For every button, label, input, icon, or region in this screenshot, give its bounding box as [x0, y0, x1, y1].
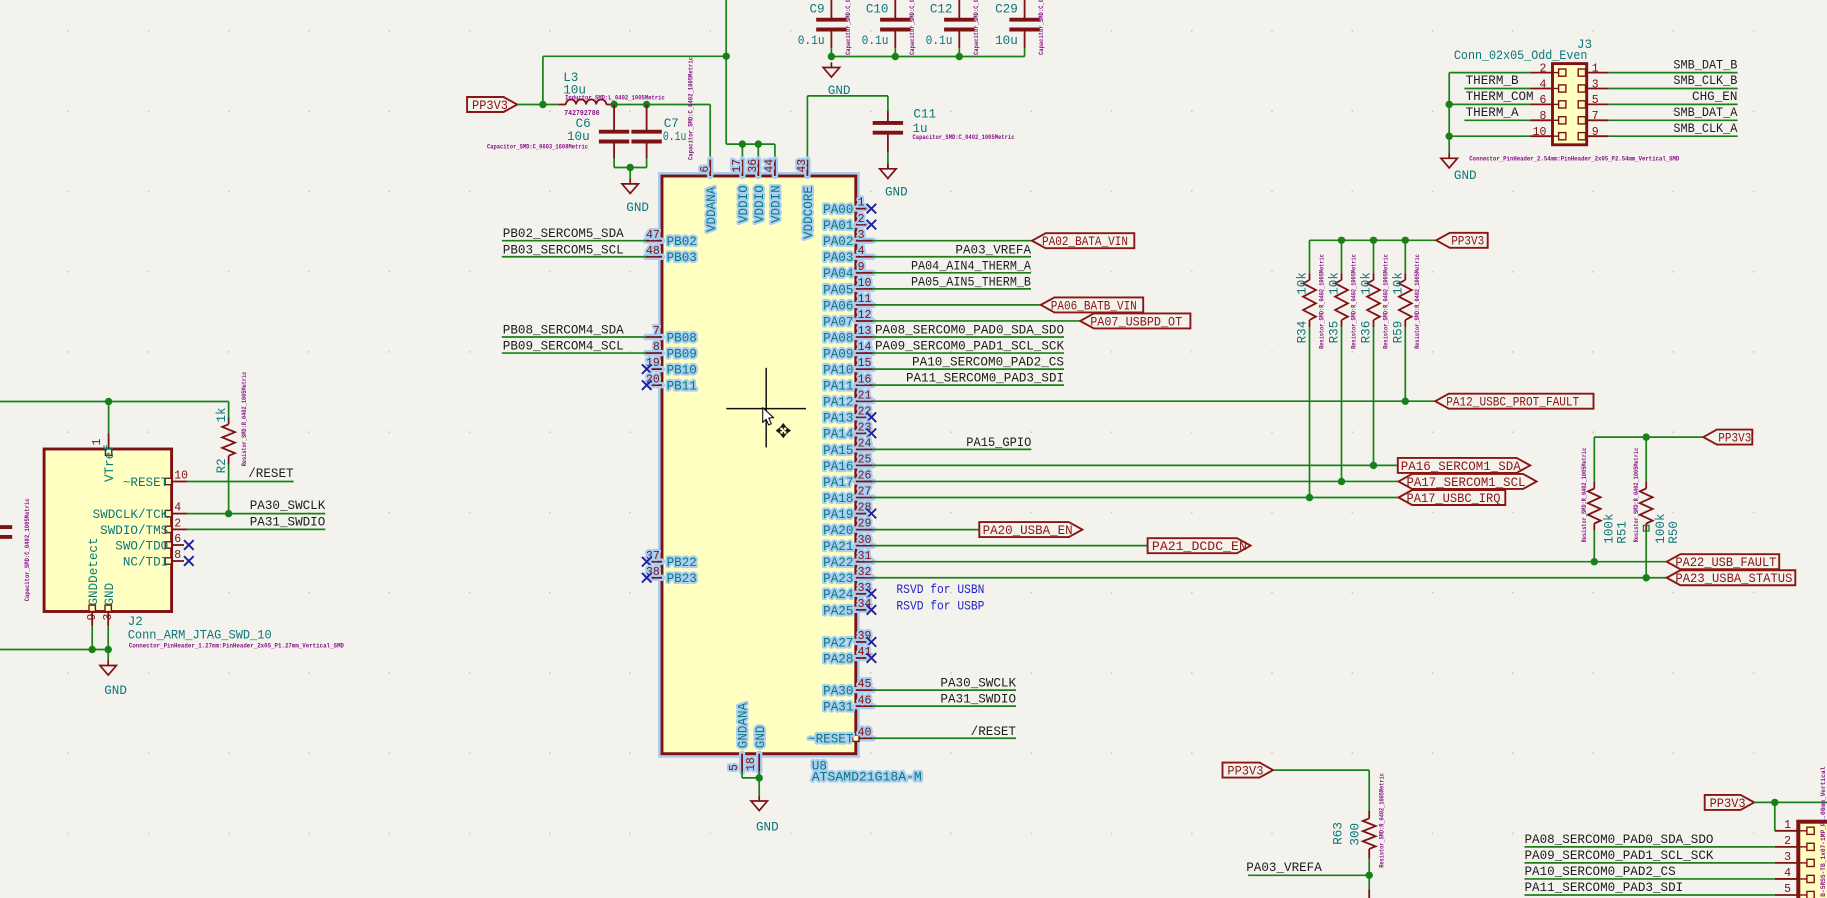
U8 pin 25 PA16: [823, 454, 873, 474]
wire PA07: [873, 320, 1080, 322]
wire to connector pin1: [1774, 802, 1776, 830]
microcontroller U8 ATSAMD21G18A-M body: [662, 176, 856, 754]
U8 pin 38 PB23: [646, 566, 697, 586]
J2 pin 10 ~RESET: [123, 470, 188, 490]
wire U8 gnd pins: [742, 772, 759, 797]
wire PA21: [873, 545, 1148, 547]
hierarchical label PA16_SERCOM1_SDA: [1398, 458, 1530, 474]
svg-text:5: 5: [1592, 94, 1599, 107]
wire PA08_SERCOM0_PAD0_SDA_SDO: [1525, 846, 1775, 848]
svg-text:PP3V3: PP3V3: [472, 99, 508, 113]
svg-text:Resistor_SMD:R_0402_1005Metric: Resistor_SMD:R_0402_1005Metric: [1581, 448, 1588, 543]
svg-text:C10: C10: [866, 2, 889, 16]
svg-text:Capacitor_SMD:C_0: Capacitor_SMD:C_0: [909, 0, 916, 55]
net label SMB_CLK_B: [1673, 74, 1737, 88]
J3 pin 2: [1531, 62, 1566, 76]
svg-text:48: 48: [646, 245, 660, 258]
junction J3 pin10: [1446, 133, 1453, 140]
svg-text:VDDIO: VDDIO: [753, 185, 767, 223]
svg-text:VDDIN: VDDIN: [770, 185, 784, 223]
hierarchical label PA22_USB_FAULT: [1667, 554, 1780, 570]
text RSVD for USBP: [896, 600, 984, 614]
J3 pin 6: [1531, 94, 1566, 108]
no-connect PB11: [642, 380, 652, 390]
svg-text:Conn_ARM_JTAG_SWD_10: Conn_ARM_JTAG_SWD_10: [128, 628, 272, 642]
wire PP3V3 R50R51 rail: [1594, 436, 1703, 438]
svg-text:SWO/TDO: SWO/TDO: [115, 539, 168, 553]
svg-text:36: 36: [747, 159, 760, 173]
U8 pin 4 PA03: [823, 245, 873, 265]
J2 pin 8 NC/TDI: [123, 549, 184, 569]
svg-text:PA06_BATB_VIN: PA06_BATB_VIN: [1051, 299, 1137, 313]
no-connect PA19: [867, 509, 877, 519]
no-connect PB10: [642, 364, 652, 374]
wire SMB_DAT_A: [1609, 119, 1738, 121]
svg-text:PA17_USBC_IRQ: PA17_USBC_IRQ: [1407, 492, 1501, 506]
svg-text:Resistor_SMD:R_0402_1005Metric: Resistor_SMD:R_0402_1005Metric: [1633, 448, 1640, 543]
svg-text:GND: GND: [103, 583, 117, 606]
svg-text:C11: C11: [913, 108, 936, 122]
wire PA10_SERCOM0_PAD2_CS: [1525, 878, 1775, 880]
U8 pin 37 PB22: [646, 550, 697, 570]
svg-text:PA30_SWCLK: PA30_SWCLK: [250, 499, 326, 513]
svg-text:VTref: VTref: [103, 444, 117, 482]
wire PA05: [873, 288, 1031, 290]
net label PA03_VREFA: [955, 243, 1031, 257]
svg-text:Resistor_SMD:R_0402_1005Metric: Resistor_SMD:R_0402_1005Metric: [1382, 254, 1389, 349]
junction J2 gnd 9: [89, 646, 96, 653]
svg-text:17: 17: [731, 159, 744, 173]
junction J2 gnd 3: [105, 646, 112, 653]
J2 pin 6 SWO/TDO: [115, 533, 184, 553]
svg-text:3: 3: [1784, 851, 1791, 864]
wire R36 top: [1373, 240, 1375, 273]
U8 pin 16 PA11: [823, 373, 873, 393]
J2 pin 2 SWDIO/TMS: [100, 517, 187, 537]
resistor R63 300: [1331, 773, 1385, 868]
svg-text:2: 2: [1539, 62, 1546, 75]
svg-text:PB09_SERCOM4_SCL: PB09_SERCOM4_SCL: [503, 340, 624, 354]
svg-text:21: 21: [858, 389, 872, 402]
capacitor at left edge: [0, 498, 31, 601]
svg-text:SMB_DAT_A: SMB_DAT_A: [1673, 106, 1737, 120]
svg-text:PA30: PA30: [823, 685, 853, 699]
U8 pin 45 PA30: [823, 678, 873, 698]
hierarchical label PP3V3 (R63): [1223, 763, 1274, 779]
no-connect PA13: [867, 412, 877, 422]
text RSVD for USBN: [896, 583, 984, 597]
U8 pin 2 PA01: [823, 213, 866, 233]
wire J3 pin10: [1449, 135, 1530, 137]
svg-text:PB03_SERCOM5_SCL: PB03_SERCOM5_SCL: [503, 243, 624, 257]
svg-text:3: 3: [1592, 78, 1599, 91]
net label PA05_AIN5_THERM_B: [911, 275, 1031, 289]
wire /RESET J2: [187, 481, 293, 483]
svg-text:PP3V3: PP3V3: [1227, 765, 1263, 779]
svg-text:PA04_AIN4_THERM_A: PA04_AIN4_THERM_A: [911, 259, 1031, 273]
svg-text:~RESET: ~RESET: [123, 476, 169, 490]
no-connect PB22: [642, 557, 652, 567]
wire PB08: [502, 336, 646, 338]
svg-text:10: 10: [1533, 126, 1547, 139]
wire SMB_CLK_A: [1609, 135, 1738, 137]
junction R63 PA03_VREFA: [1366, 872, 1373, 879]
svg-text:THERM_B: THERM_B: [1466, 74, 1519, 88]
connector pin 3 (bottom right): [1775, 851, 1814, 867]
svg-text:PA11_SERCOM0_PAD3_SDI: PA11_SERCOM0_PAD3_SDI: [1525, 881, 1684, 895]
wire PB02: [502, 240, 646, 242]
J2 pin 4 SWDCLK/TCK: [93, 502, 188, 522]
capacitor C12: [926, 0, 980, 55]
svg-text:15: 15: [858, 357, 872, 370]
svg-text:PA08_SERCOM0_PAD0_SDA_SDO: PA08_SERCOM0_PAD0_SDA_SDO: [1525, 833, 1714, 847]
svg-text:GNDANA: GNDANA: [737, 702, 751, 748]
J2 pin 9 GNDDetect: [86, 537, 101, 625]
svg-text:PA28: PA28: [823, 652, 853, 666]
svg-text:RSVD for USBP: RSVD for USBP: [896, 600, 984, 614]
svg-text:SWDCLK/TCK: SWDCLK/TCK: [93, 508, 169, 522]
junction U8 gnd: [756, 774, 763, 781]
hierarchical label PA02_BATA_VIN: [1032, 233, 1134, 249]
hierarchical label PP3V3 (R50 R51): [1703, 430, 1752, 446]
svg-text:R50: R50: [1667, 521, 1681, 544]
svg-text:Capacitor_SMD:C_0603_1608Metri: Capacitor_SMD:C_0603_1608Metric: [487, 143, 588, 150]
svg-text:/RESET: /RESET: [248, 467, 294, 481]
svg-text:PA30_SWCLK: PA30_SWCLK: [940, 677, 1016, 691]
wire R50 bottom: [1645, 530, 1647, 578]
svg-text:Inductor_SMD:L_0402_1005Metric: Inductor_SMD:L_0402_1005Metric: [565, 94, 665, 101]
svg-text:SWDIO/TMS: SWDIO/TMS: [100, 524, 168, 538]
hierarchical label PA07_USBPD_OT: [1080, 313, 1190, 329]
svg-text:SMB_DAT_B: SMB_DAT_B: [1673, 58, 1737, 72]
svg-text:CHG_EN: CHG_EN: [1692, 90, 1737, 104]
svg-text:Resistor_SMD:R_0402_1005Metric: Resistor_SMD:R_0402_1005Metric: [1414, 254, 1421, 349]
svg-text:PA18: PA18: [823, 492, 853, 506]
svg-text:PA08_SERCOM0_PAD0_SDA_SDO: PA08_SERCOM0_PAD0_SDA_SDO: [875, 324, 1064, 338]
svg-text:PA14: PA14: [823, 428, 853, 442]
svg-text:31: 31: [858, 550, 872, 563]
capacitor C6: [487, 105, 629, 159]
hierarchical label PA23_USBA_STATUS: [1667, 570, 1796, 586]
wire R35 top: [1341, 240, 1343, 273]
wire VDDIO feed: [726, 144, 775, 160]
svg-text:6: 6: [699, 166, 712, 173]
svg-text:8: 8: [653, 341, 660, 354]
svg-text:2: 2: [174, 517, 181, 530]
wire /RESET U8: [873, 737, 1016, 739]
junction PA12 R59: [1402, 398, 1409, 405]
svg-text:2: 2: [1784, 835, 1791, 848]
wire C11 to gnd: [887, 152, 889, 169]
svg-text:PA21: PA21: [823, 540, 853, 554]
svg-text:46: 46: [858, 694, 872, 707]
svg-text:10: 10: [858, 277, 872, 290]
svg-text:PA11: PA11: [823, 380, 853, 394]
svg-text:29: 29: [858, 518, 872, 531]
junction VDDIO pins: [739, 140, 762, 147]
junction at L3 input: [539, 101, 546, 108]
svg-text:0.1u: 0.1u: [663, 130, 687, 144]
U8 pin 6 VDDANA: [699, 160, 719, 232]
svg-text:Resistor_SMD:R_0402_1005Metric: Resistor_SMD:R_0402_1005Metric: [1318, 254, 1325, 349]
net label PA09_SERCOM0_PAD1_SCL_SCK: [875, 340, 1064, 354]
svg-text:PA06: PA06: [823, 299, 853, 313]
inductor L3: [558, 71, 665, 118]
ground J3: [1441, 153, 1477, 183]
U8 pin 19 PB10: [646, 357, 697, 377]
wire R2 top: [228, 402, 230, 418]
wire R2 bottom: [228, 465, 230, 514]
U8 pin 39 PA27: [823, 630, 871, 650]
svg-text:40: 40: [858, 726, 872, 739]
hierarchical label PP3V3 (top left): [467, 97, 517, 113]
U8 pin 36 VDDIO: [747, 159, 767, 223]
svg-text:PA07: PA07: [823, 315, 853, 329]
no-connect J2 pin 8: [184, 556, 194, 566]
U8 pin 10 PA05: [823, 277, 873, 297]
svg-text:Capacitor_SMD:C_0402_1005Metri: Capacitor_SMD:C_0402_1005Metric: [688, 57, 695, 160]
svg-text:PB11: PB11: [667, 380, 697, 394]
svg-text:R51: R51: [1615, 521, 1629, 544]
svg-text:16: 16: [858, 373, 872, 386]
wire SMB_DAT_B: [1609, 72, 1738, 74]
capacitor C29: [995, 0, 1045, 55]
svg-text:45: 45: [858, 678, 872, 691]
junction PA18 R34: [1306, 494, 1313, 501]
svg-text:13: 13: [858, 325, 872, 338]
svg-text:PA13: PA13: [823, 412, 853, 426]
wire PA08: [873, 336, 1064, 338]
J3 reference: [1577, 38, 1592, 52]
svg-text:PA15: PA15: [823, 444, 853, 458]
J3 pin 1: [1578, 62, 1609, 76]
wire PA02: [873, 240, 1032, 242]
svg-text:4: 4: [858, 245, 865, 258]
U8 pin 8 PB09: [646, 341, 697, 361]
wire PA11_SERCOM0_PAD3_SDI: [1525, 894, 1775, 896]
wire PA15: [873, 448, 1032, 450]
svg-text:C12: C12: [930, 2, 953, 16]
svg-text:Resistor_SMD:R_0402_1005Metric: Resistor_SMD:R_0402_1005Metric: [1378, 773, 1385, 868]
svg-text:SMB_CLK_A: SMB_CLK_A: [1673, 122, 1737, 136]
U8 pin 40 ~RESET: [808, 726, 873, 746]
svg-text:PA01: PA01: [823, 219, 853, 233]
svg-text:J2: J2: [128, 615, 143, 629]
J3 pin 4: [1531, 78, 1566, 92]
junction C7 top: [643, 101, 650, 108]
net label PA30_SWCLK (J2): [250, 499, 326, 513]
svg-text:GND: GND: [104, 684, 127, 698]
svg-text:PA03: PA03: [823, 251, 853, 265]
wire PA03: [873, 256, 1031, 258]
junction caps rail: [828, 53, 963, 60]
svg-text:PA27: PA27: [823, 636, 853, 650]
U8 pin 48 PB03: [646, 245, 697, 265]
crosshair cursor: [726, 368, 806, 448]
U8 pin 27 PA18: [823, 486, 873, 506]
wire R51 top: [1593, 437, 1595, 482]
svg-text:26: 26: [858, 470, 872, 483]
net label PA10_SERCOM0_PAD2_CS: [912, 356, 1064, 370]
svg-text:PA23_USBA_STATUS: PA23_USBA_STATUS: [1675, 572, 1792, 586]
resistor R2 1k: [215, 371, 248, 473]
svg-text:10u: 10u: [995, 34, 1018, 48]
svg-text:PA19: PA19: [823, 508, 853, 522]
svg-text:0.1u: 0.1u: [862, 34, 889, 48]
svg-text:RSVD for USBN: RSVD for USBN: [896, 583, 984, 597]
junction PA16 R36: [1370, 462, 1377, 469]
svg-text:PA09_SERCOM0_PAD1_SCL_SCK: PA09_SERCOM0_PAD1_SCL_SCK: [1525, 849, 1714, 863]
svg-text:Conn_02x05_Odd_Even: Conn_02x05_Odd_Even: [1454, 49, 1588, 63]
wire PA23: [873, 577, 1667, 579]
svg-text:B-5RSS-TB_1x07-1MP_P1.06mm_Ver: B-5RSS-TB_1x07-1MP_P1.06mm_Vertical: [1820, 767, 1827, 897]
svg-text:0.1u: 0.1u: [926, 34, 953, 48]
resistor R36 10k: [1360, 254, 1390, 349]
net label PB09_SERCOM4_SCL: [503, 340, 624, 354]
ground caps rail: [823, 62, 850, 98]
svg-text:PA09: PA09: [823, 347, 853, 361]
svg-text:300: 300: [1349, 823, 1363, 846]
no-connect PA25: [867, 605, 877, 615]
svg-text:43: 43: [796, 159, 809, 173]
svg-text:VDDIO: VDDIO: [737, 185, 751, 223]
svg-text:Connector_PinHeader_1.27mm:Pin: Connector_PinHeader_1.27mm:PinHeader_2x0…: [129, 642, 344, 649]
svg-text:9: 9: [86, 614, 99, 621]
svg-text:PA20_USBA_EN: PA20_USBA_EN: [983, 524, 1073, 538]
svg-text:PA09_SERCOM0_PAD1_SCL_SCK: PA09_SERCOM0_PAD1_SCL_SCK: [875, 340, 1064, 354]
resistor R59 10k: [1392, 254, 1422, 349]
net label PB08_SERCOM4_SDA: [503, 324, 624, 338]
svg-text:R2: R2: [215, 458, 229, 473]
hierarchical label PA17_SERCOM1_SCL: [1399, 474, 1537, 490]
J3 pin 3: [1578, 78, 1609, 92]
U8 pin 20 PB11: [646, 373, 697, 393]
net label PA11_SERCOM0_PAD3_SDI: [1525, 881, 1684, 895]
svg-text:R59: R59: [1392, 321, 1406, 344]
junction rail R36: [1370, 237, 1377, 244]
J3 pin 7: [1578, 110, 1609, 124]
svg-text:GND: GND: [1454, 169, 1477, 183]
connector pin 2 (bottom right): [1775, 835, 1814, 851]
svg-text:18: 18: [745, 757, 758, 771]
svg-text:PA11_SERCOM0_PAD3_SDI: PA11_SERCOM0_PAD3_SDI: [906, 372, 1064, 386]
wire PA11: [873, 384, 1064, 386]
net label THERM_COM: [1466, 90, 1534, 104]
wire THERM_A: [1464, 119, 1530, 121]
svg-text:PA12_USBC_PROT_FAULT: PA12_USBC_PROT_FAULT: [1446, 396, 1579, 410]
net label PA08_SERCOM0_PAD0_SDA_SDO: [1525, 833, 1714, 847]
svg-text:PB02_SERCOM5_SDA: PB02_SERCOM5_SDA: [503, 227, 624, 241]
svg-text:PA31_SWDIO: PA31_SWDIO: [250, 516, 326, 530]
wire PA03_VREFA bottom: [1248, 875, 1369, 889]
capacitor C7: [631, 57, 694, 160]
net label SMB_DAT_A: [1673, 106, 1737, 120]
connector J2 body: [44, 449, 172, 612]
net label CHG_EN: [1692, 90, 1737, 104]
wire gnd rail of caps: [831, 48, 1024, 56]
wire PA06: [873, 304, 1041, 306]
svg-text:PP3V3: PP3V3: [1710, 797, 1746, 811]
J2 pin 1 VTref: [91, 434, 117, 483]
svg-text:PA16_SERCOM1_SDA: PA16_SERCOM1_SDA: [1401, 460, 1521, 474]
hierarchical label PA21_DCDC_EN: [1148, 538, 1251, 554]
svg-text:PA31: PA31: [823, 701, 853, 715]
wire SMB_CLK_B: [1609, 88, 1738, 90]
U8 pin 26 PA17: [823, 470, 873, 490]
svg-text:7: 7: [1592, 110, 1599, 123]
svg-text:GND: GND: [756, 820, 779, 834]
wire PA16: [873, 464, 1398, 466]
net label PB03_SERCOM5_SCL: [503, 243, 624, 257]
svg-text:GNDDetect: GNDDetect: [87, 537, 101, 605]
wire PA17: [873, 480, 1399, 482]
junction rail R35: [1338, 237, 1345, 244]
svg-text:PA22_USB_FAULT: PA22_USB_FAULT: [1675, 556, 1776, 570]
svg-text:25: 25: [858, 454, 872, 467]
wire PA31: [873, 705, 1016, 707]
wire J2 gnd pins: [0, 626, 108, 661]
hierarchical label PA17_USBC_IRQ: [1399, 490, 1506, 506]
svg-text:PA21_DCDC_EN: PA21_DCDC_EN: [1152, 540, 1247, 554]
svg-text:PA10_SERCOM0_PAD2_CS: PA10_SERCOM0_PAD2_CS: [1525, 865, 1676, 879]
svg-text:100k: 100k: [1654, 513, 1668, 543]
svg-text:10u: 10u: [567, 130, 590, 144]
svg-text:PP3V3: PP3V3: [1451, 235, 1484, 249]
net label PA09_SERCOM0_PAD1_SCL_SCK: [1525, 849, 1714, 863]
U8 pin 24 PA15: [823, 437, 873, 457]
net label /RESET (J2): [248, 467, 294, 481]
svg-text:PB08: PB08: [667, 331, 697, 345]
svg-text:10k: 10k: [1328, 272, 1342, 295]
svg-text:32: 32: [858, 566, 872, 579]
U8 pin 30 PA21: [823, 534, 873, 554]
svg-text:9: 9: [1592, 126, 1599, 139]
wire 3V3 riser to top rail: [543, 56, 726, 104]
svg-text:3: 3: [102, 614, 115, 621]
U8 pin 23 PA14: [823, 421, 871, 441]
net label PA08_SERCOM0_PAD0_SDA_SDO: [875, 324, 1064, 338]
svg-text:Connector_PinHeader_2.54mm:Pin: Connector_PinHeader_2.54mm:PinHeader_2x0…: [1469, 156, 1679, 163]
J2 value Conn_ARM_JTAG_SWD_10: [128, 628, 272, 642]
wire VTref rail: [0, 402, 229, 434]
wire PA09: [873, 352, 1064, 354]
net label PA31_SWDIO: [940, 693, 1016, 707]
J3 value Conn_02x05_Odd_Even: [1454, 49, 1588, 63]
svg-text:R36: R36: [1360, 321, 1374, 344]
svg-text:C7: C7: [664, 117, 679, 131]
junction C6C7 gnd: [627, 164, 634, 171]
U8 pin 47 PB02: [646, 229, 697, 249]
J2 footprint text: [129, 642, 344, 649]
wire PA22: [873, 561, 1667, 563]
net label SMB_DAT_B: [1673, 58, 1737, 72]
svg-text:PA03_VREFA: PA03_VREFA: [1246, 861, 1322, 875]
junction bottom right: [1771, 799, 1778, 806]
net label PA04_AIN4_THERM_A: [911, 259, 1031, 273]
svg-text:9: 9: [858, 261, 865, 274]
net label THERM_B: [1466, 74, 1519, 88]
svg-text:PA08: PA08: [823, 331, 853, 345]
U8 pin 28 PA19: [823, 502, 871, 522]
svg-text:Capacitor_SMD:C_0402_1005Metri: Capacitor_SMD:C_0402_1005Metric: [913, 134, 1015, 141]
svg-text:PA04: PA04: [823, 267, 853, 281]
hierarchical label PA06_BATB_VIN: [1041, 297, 1143, 313]
hierarchical label PA20_USBA_EN: [979, 522, 1082, 538]
junction PA17 R35: [1338, 478, 1345, 485]
wire THERM_COM: [1449, 103, 1530, 105]
wire THERM_B: [1464, 88, 1530, 90]
connector body (bottom right): [1798, 822, 1827, 898]
